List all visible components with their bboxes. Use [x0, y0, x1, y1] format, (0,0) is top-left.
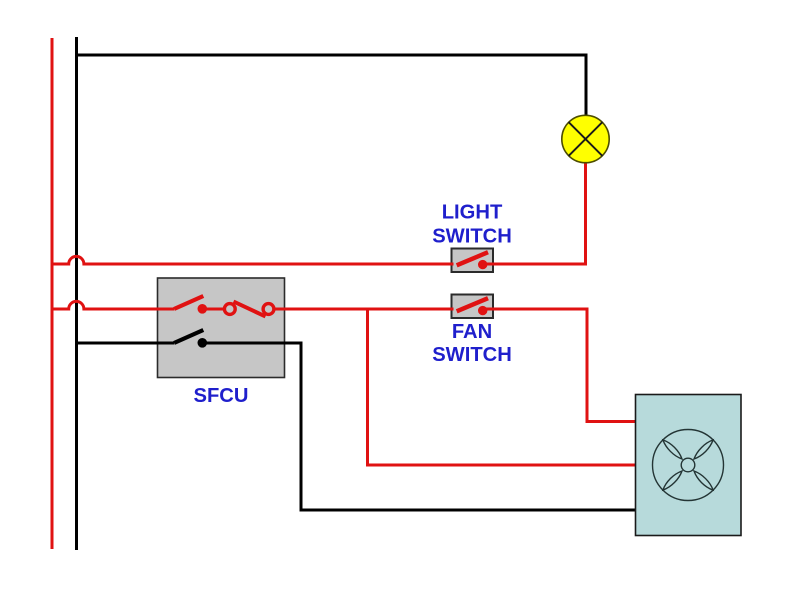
lamp L1 [562, 115, 609, 162]
svg-text:SWITCH: SWITCH [432, 226, 512, 248]
wire: red from live supply to light switch (with hop over neutral) [52, 256, 454, 264]
switch: SFCU red contact dot [198, 304, 208, 314]
switch box: fan switch enclosure [452, 295, 494, 319]
wire: red live supply vertical [51, 38, 54, 549]
svg-text:LIGHT: LIGHT [442, 202, 503, 224]
wire: black neutral to lamp (top run) [77, 55, 587, 117]
wire: red branch down to fan (middle feed) [368, 309, 636, 465]
fuse in SFCU: right circle [263, 304, 274, 315]
wire: red from live supply into SFCU (with hop over neutral) [52, 301, 174, 309]
wire: black neutral into SFCU [77, 342, 175, 345]
switch: SFCU black contact dot [198, 338, 208, 348]
wire: black neutral supply vertical [75, 37, 78, 550]
svg-text:SWITCH: SWITCH [432, 344, 512, 366]
fuse in SFCU: left circle [224, 304, 235, 315]
switch: light switch contact dot [478, 260, 487, 269]
switch box: light switch enclosure [452, 249, 494, 273]
SFCU enclosure [158, 278, 285, 378]
fan rotor symbol [653, 430, 724, 501]
switch: fan switch contact dot [478, 306, 487, 315]
switch: SFCU red switch blade [174, 296, 203, 309]
fan unit enclosure [636, 395, 742, 536]
wire: red from SFCU fuse to fan switch [275, 308, 454, 311]
wire: red from light switch up to lamp [483, 163, 586, 264]
svg-text:FAN: FAN [452, 321, 492, 343]
wire: red from fan switch right then down to fan (top feed) [483, 309, 636, 422]
fuse in SFCU: diagonal link [234, 302, 266, 317]
wire: red from SFCU dot to fuse [202, 308, 225, 311]
svg-text:SFCU: SFCU [194, 385, 249, 407]
switch: SFCU black switch blade [174, 330, 203, 343]
switch: fan switch blade [457, 298, 488, 311]
switch: light switch blade [457, 252, 488, 265]
wire: black from SFCU down and right to fan [202, 343, 635, 510]
